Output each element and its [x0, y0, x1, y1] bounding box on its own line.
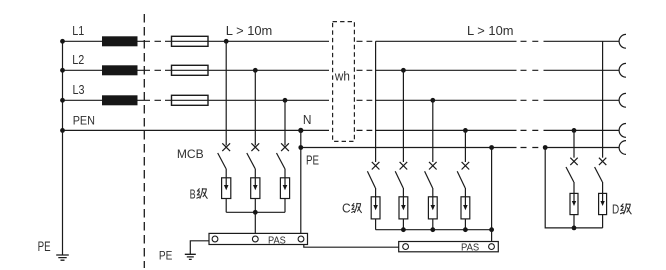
svg-text:N: N [303, 112, 312, 127]
breaker Q2 (MCB) branch from L2 [247, 68, 259, 178]
label C class [342, 201, 361, 216]
surge arrester FV3 class B [280, 178, 289, 213]
disconnector C branch 1 from L1 [367, 41, 379, 197]
fuse F3 on L3 [172, 95, 209, 105]
fuse F1 on L1 [172, 36, 209, 46]
surge arrester FV1 class B [222, 178, 231, 213]
surge arrester FV2 class B [251, 178, 260, 213]
outlet terminator N [619, 124, 626, 138]
svg-text:MCB: MCB [177, 147, 204, 161]
outlet terminator PE [619, 141, 626, 155]
surge arrester class C 2 [399, 197, 408, 230]
svg-text:D: D [612, 202, 619, 217]
svg-text:L2: L2 [72, 53, 84, 67]
equipotential bonding bar PAS 1 [209, 233, 308, 244]
wire PEN / N conductor [63, 129, 620, 131]
breaker Q1 (MCB) branch from L1 [218, 39, 230, 178]
equipotential bonding bar PAS 2 [399, 242, 499, 252]
svg-text:L1: L1 [72, 24, 84, 38]
breaker Q3 (MCB) branch from L3 [277, 98, 289, 178]
series impedance block on L1 [102, 36, 138, 46]
outlet terminator L2 [619, 63, 626, 77]
wire PAS1 to PAS2 link [304, 245, 399, 248]
svg-text:PAS: PAS [268, 235, 286, 246]
wire B arrester common bus [226, 211, 285, 213]
disconnector C branch 2 from L2 [395, 68, 407, 197]
wire L2 phase line [63, 69, 620, 71]
surge arrester class C 4 [461, 197, 470, 230]
wire B bus drop to PAS [254, 212, 256, 233]
svg-text:PE: PE [159, 249, 173, 263]
svg-text:PE: PE [306, 154, 319, 168]
disconnector C branch 3 from L3 [425, 98, 437, 197]
svg-text:L > 10m: L > 10m [467, 24, 514, 38]
svg-text:L3: L3 [73, 83, 85, 97]
svg-text:PEN: PEN [73, 113, 95, 127]
svg-text:wh: wh [334, 68, 350, 83]
svg-text:PE: PE [38, 238, 51, 254]
svg-text:B: B [190, 186, 196, 201]
wire C arrester common bus [376, 229, 492, 231]
surge arrester class C 1 [371, 197, 380, 230]
boundary divider dashed line [143, 14, 145, 268]
junction dots on supply bus [60, 39, 65, 133]
wire PE conductor [301, 147, 620, 149]
outlet terminator L1 [619, 34, 626, 48]
wire D arrester common bus to PE [543, 145, 603, 230]
label D class [612, 202, 631, 217]
wire L3 phase line [63, 99, 620, 101]
ground electrode at PAS1 [185, 254, 196, 259]
svg-text:PAS: PAS [461, 242, 479, 253]
wire supply bus vertical [62, 41, 64, 130]
series impedance block on L2 [102, 65, 138, 75]
node PEN split to N and PE [298, 128, 303, 234]
surge arrester class C 3 [428, 197, 437, 230]
series impedance block on L3 [102, 95, 138, 105]
wire L1 phase line [63, 40, 620, 42]
junction dot B bus [253, 210, 258, 215]
energy meter wh dashed box [333, 22, 355, 142]
fuse F2 on L2 [172, 65, 209, 75]
ground electrode (service entrance PE) [56, 130, 69, 260]
wire PE drop to PAS2 [489, 145, 494, 241]
surge arrester class D 1 [570, 193, 578, 228]
svg-text:C: C [342, 201, 351, 216]
svg-text:L > 10m: L > 10m [226, 24, 272, 38]
surge arrester class D 2 [599, 193, 607, 228]
junction dots C bus [401, 227, 494, 232]
disconnector D branch 1 from N [566, 128, 578, 193]
label B class [190, 186, 208, 201]
disconnector C branch 4 from N [457, 128, 469, 197]
wire PAS1 to ground [190, 241, 209, 254]
disconnector D branch 2 from L1 [595, 41, 607, 193]
outlet terminator L3 [619, 93, 626, 107]
